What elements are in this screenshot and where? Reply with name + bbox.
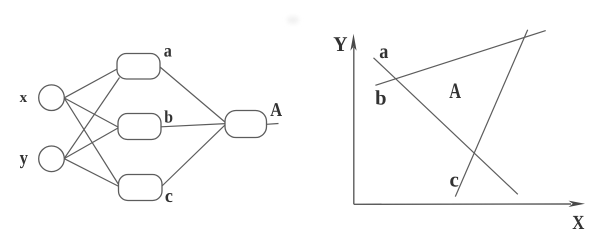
X axis arrowhead: [569, 201, 586, 207]
X axis: [354, 203, 571, 205]
wire b to output A: [161, 124, 226, 127]
wire x to a: [64, 68, 119, 98]
svg-text:A: A: [270, 100, 282, 121]
svg-text:b: b: [164, 107, 173, 127]
svg-text:Y: Y: [333, 32, 347, 56]
input node y: [39, 146, 65, 172]
wire x to b: [64, 98, 118, 127]
svg-text:b: b: [375, 88, 386, 110]
wire a to output A: [160, 67, 226, 123]
wire y to c: [64, 159, 119, 187]
hidden node a: [117, 54, 160, 80]
decision line c: [455, 30, 527, 197]
wire x to c: [64, 98, 119, 186]
svg-text:a: a: [164, 41, 172, 61]
wire y to b: [64, 128, 118, 159]
svg-text:c: c: [165, 186, 173, 207]
svg-text:a: a: [379, 41, 388, 63]
svg-text:X: X: [572, 212, 585, 234]
wire c to output A: [162, 125, 226, 187]
svg-text:c: c: [450, 167, 459, 191]
input node x: [39, 85, 65, 111]
hidden node c: [119, 175, 163, 201]
output node A: [225, 111, 267, 138]
hidden node b: [118, 114, 161, 140]
svg-text:y: y: [20, 148, 29, 169]
decision line b: [375, 31, 545, 86]
faint scan smudge: [287, 16, 299, 24]
wire y to a: [64, 78, 119, 159]
svg-text:A: A: [449, 78, 461, 103]
svg-text:x: x: [20, 90, 28, 106]
Y axis: [353, 47, 355, 204]
Y axis arrowhead: [350, 34, 356, 51]
output wire from A: [267, 123, 279, 126]
decision line a: [374, 58, 518, 195]
